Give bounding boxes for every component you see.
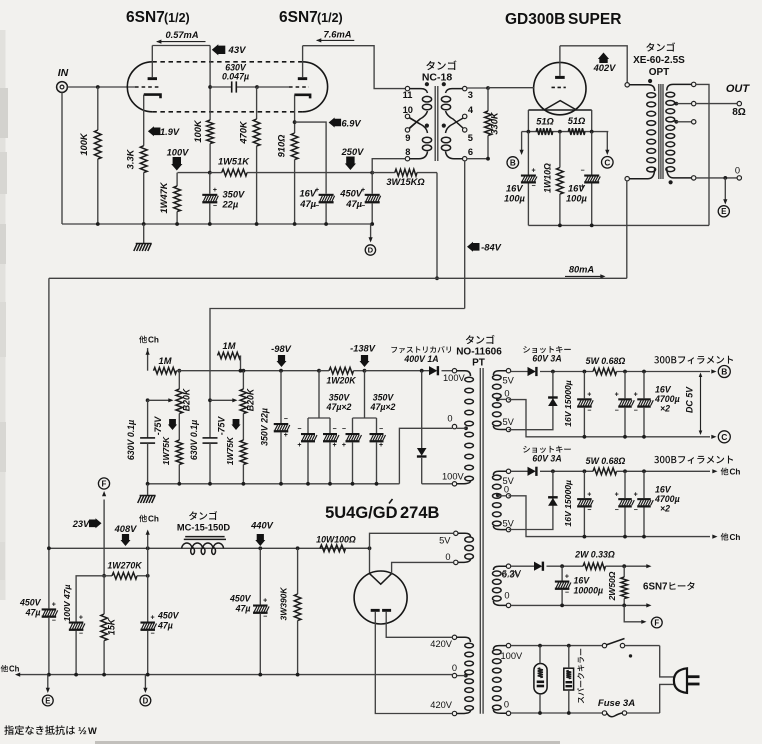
svg-text:450V: 450V: [229, 594, 252, 604]
svg-text:60V 3A: 60V 3A: [532, 453, 561, 463]
svg-text:6SN7: 6SN7: [643, 582, 668, 593]
svg-text:D: D: [143, 696, 149, 705]
svg-text:6.3V: 6.3V: [502, 570, 522, 580]
svg-text:+: +: [615, 491, 619, 498]
switch SW1: [602, 643, 606, 647]
svg-text:450V: 450V: [157, 611, 180, 621]
capacitor C 16V15000u supply 1: [583, 370, 587, 374]
node bias rail ch1 pot top: [177, 369, 181, 373]
diode D Schottky lower supply 1: [509, 372, 553, 430]
svg-text:0: 0: [452, 663, 457, 673]
arrow -75V ch2: [231, 419, 240, 430]
T3 5V rectifier winding: [454, 531, 458, 535]
svg-text:1M: 1M: [159, 356, 172, 366]
wire bias line to voltage divider: [210, 309, 465, 356]
node input junction: [96, 85, 100, 89]
capacitor C 16V4700u a supply 2: [623, 469, 627, 473]
wire bias rail: [177, 370, 282, 372]
arrow heater return: [646, 603, 651, 607]
wire bias ground rail: [148, 483, 400, 485]
svg-text:SUPER: SUPER: [568, 11, 621, 28]
svg-text:B: B: [721, 367, 727, 377]
svg-text:330K: 330K: [490, 111, 500, 135]
phase dot T2 primary: [648, 79, 652, 83]
wire B+ feed down from 80mA line: [48, 278, 50, 608]
svg-text:−: −: [297, 426, 301, 433]
svg-text:−: −: [263, 614, 267, 621]
svg-text:47µ: 47µ: [345, 199, 362, 209]
plug body: [674, 668, 687, 693]
svg-text:+: +: [52, 602, 56, 609]
resistor R19 15K: [103, 576, 105, 614]
wire pin10 crossover: [409, 118, 420, 125]
svg-text:100V: 100V: [167, 147, 190, 157]
svg-text:+: +: [634, 491, 638, 498]
svg-text:15K: 15K: [107, 618, 117, 635]
tube V4 envelope: [354, 571, 407, 624]
svg-text:XE-60-2.5S: XE-60-2.5S: [633, 55, 685, 66]
capacitor C13 100V 47u: [69, 622, 84, 624]
svg-text:Fuse 3A: Fuse 3A: [598, 698, 635, 709]
choke L1 Tango MC-15-150D: [189, 511, 217, 520]
wire pin9 crossover: [409, 119, 420, 129]
node plate/coupling junction: [208, 85, 212, 89]
svg-text:6: 6: [468, 147, 473, 157]
wire main B+ rail 408V: [49, 547, 370, 549]
tube V2 cathode: [294, 95, 310, 99]
wire pin6 bias feed down: [464, 161, 466, 309]
resistor R20 3W390K bleeder: [296, 546, 300, 550]
svg-text:+: +: [587, 392, 591, 399]
svg-text:-84V: -84V: [481, 243, 501, 253]
svg-text:−: −: [634, 407, 638, 414]
arrow ground to other channel: [15, 673, 20, 677]
svg-text:−: −: [581, 168, 585, 175]
svg-text:100V 47µ: 100V 47µ: [62, 584, 72, 621]
wire OPT B+ drop: [626, 181, 628, 278]
resistor R16 1W75K ch2: [242, 414, 244, 441]
svg-text:100K: 100K: [79, 132, 89, 156]
pin 4: [463, 114, 467, 118]
terminal B: [507, 157, 519, 169]
tube V1 grid (dashed): [135, 86, 161, 88]
resistor R10 51ohm: [536, 128, 553, 135]
resistor R21 10W100ohm: [320, 545, 346, 552]
svg-text:NC-18: NC-18: [422, 72, 453, 84]
svg-text:+: +: [284, 432, 288, 439]
phase dot T1 primary top: [425, 82, 429, 86]
label other channel bias: [139, 336, 147, 344]
svg-text:1W75K: 1W75K: [225, 436, 235, 465]
terminal C: [602, 157, 614, 169]
wire pin6 to 330K bottom: [467, 158, 488, 160]
node heater bias divider: [102, 574, 106, 578]
terminal E bottom: [42, 695, 53, 706]
node 250V line to 3W15K: [370, 171, 374, 175]
wire 3W15K down to B+ line: [436, 173, 438, 279]
arrow output to other channel bottom: [712, 535, 717, 539]
svg-text:47µ×2: 47µ×2: [326, 402, 352, 412]
wire AC bottom rail: [511, 712, 603, 714]
transformer T1 primary winding lower: [410, 118, 428, 133]
wire B+ 80mA line: [49, 277, 627, 279]
arrow to C: [606, 132, 608, 153]
svg-text:274B: 274B: [400, 504, 440, 522]
svg-text:-75V: -75V: [153, 416, 163, 436]
wire heater return rail: [511, 604, 648, 606]
wire bias winding center tap: [464, 426, 468, 430]
resistor R3 100K plate load V1: [207, 120, 214, 144]
svg-text:OPT: OPT: [649, 67, 670, 78]
transformer T2 secondary winding: [667, 84, 692, 90]
svg-text:−: −: [52, 617, 56, 624]
arrow -84V: [467, 242, 480, 252]
svg-text:+: +: [151, 615, 155, 622]
svg-text:400V 1A: 400V 1A: [403, 354, 438, 364]
capacitor C 16V4700u a supply 1: [623, 370, 627, 374]
potentiometer B20K ch1: [176, 389, 183, 414]
svg-text:16V: 16V: [299, 189, 316, 199]
node rectifier junction supply 1: [551, 370, 555, 374]
svg-text:−: −: [79, 631, 83, 638]
capacitor C 16V4700u b supply 1: [642, 370, 646, 374]
tube V3 grid dashes: [552, 86, 566, 88]
svg-text:9: 9: [405, 133, 410, 143]
svg-text:16V: 16V: [655, 484, 672, 494]
arrow to E top: [724, 178, 726, 202]
tube V2 grid (dashed): [289, 86, 309, 88]
svg-text:11: 11: [403, 90, 413, 100]
svg-text:−: −: [342, 426, 346, 433]
svg-text:6.9V: 6.9V: [341, 118, 361, 128]
resistor R 5W0.68ohm supply 2: [593, 468, 617, 475]
svg-text:6SN7: 6SN7: [126, 9, 165, 26]
node bias rail 47u bank 1: [317, 369, 321, 373]
node 440V: [258, 546, 262, 550]
tube V1 envelope (shared obround, dashed): [127, 62, 152, 112]
arrow heater output top: [646, 564, 651, 568]
svg-text:100V: 100V: [442, 472, 465, 482]
svg-text:−: −: [333, 426, 337, 433]
svg-text:F: F: [654, 618, 659, 627]
svg-text:8Ω: 8Ω: [732, 107, 746, 118]
svg-text:−: −: [634, 507, 638, 514]
T3 bias winding 100V-0-100V: [452, 369, 456, 373]
pilot lamp PL1: [534, 664, 547, 694]
wire pin3 to 300B grid: [467, 87, 488, 89]
arrow B+ to other channel: [146, 546, 150, 550]
node pot top ch2: [242, 369, 246, 373]
terminal F right: [651, 617, 662, 628]
capacitor C5 16V 100u left: [527, 132, 529, 175]
diode D1 fast recovery 400V1A: [365, 370, 430, 372]
pin 8: [405, 157, 409, 161]
wire HV center tap: [464, 674, 468, 678]
svg-text:350V 22µ: 350V 22µ: [260, 408, 270, 446]
svg-text:-75V: -75V: [217, 416, 227, 436]
wire V1 plate drop to 100K: [209, 46, 211, 121]
annotation 7.6mA: [317, 39, 355, 41]
tube V3 300B envelope: [534, 62, 586, 114]
wire V3 plate to OPT: [560, 46, 627, 83]
svg-text:910Ω: 910Ω: [277, 134, 287, 158]
wire to V2 grid: [257, 86, 289, 88]
svg-text:5V: 5V: [503, 519, 515, 529]
capacitor C16 16V 10000u: [561, 566, 563, 580]
resistor R1 100K input: [97, 87, 99, 130]
svg-text:630V 0.1µ: 630V 0.1µ: [189, 420, 199, 460]
svg-text:250V: 250V: [341, 147, 365, 157]
svg-text:47µ: 47µ: [25, 608, 41, 618]
note: unmarked resistors 1/2W: [4, 725, 75, 735]
svg-text:×2: ×2: [660, 404, 670, 414]
capacitor C 16V4700u b supply 2: [642, 469, 646, 473]
svg-text:MC-15-150D: MC-15-150D: [177, 523, 231, 533]
svg-text:D: D: [368, 246, 374, 255]
svg-text:−: −: [615, 407, 619, 414]
svg-text:−: −: [379, 426, 383, 433]
phase dot T1 primary mid: [425, 124, 429, 128]
svg-text:630V 0.1µ: 630V 0.1µ: [126, 420, 136, 460]
diode D Schottky top supply 2: [511, 470, 528, 472]
svg-text:22µ: 22µ: [222, 200, 239, 210]
svg-text:0.047µ: 0.047µ: [222, 71, 249, 81]
svg-text:6SN7: 6SN7: [279, 9, 318, 26]
capacitor C2 350V 22u: [209, 173, 211, 194]
pin 6: [463, 157, 467, 161]
svg-text:16V: 16V: [506, 184, 523, 194]
annotation 0.57mA: [157, 41, 206, 43]
wire 1M ch2 to rail: [240, 356, 242, 371]
potentiometer B20K ch2: [242, 371, 244, 389]
svg-text:OUT: OUT: [726, 83, 751, 95]
wire to F right: [624, 605, 643, 621]
wire V1 plate top: [152, 45, 210, 47]
svg-text:100V: 100V: [501, 651, 524, 661]
arrow 402V: [598, 53, 609, 64]
wire switch to right rail: [625, 645, 660, 647]
svg-text:402V: 402V: [593, 63, 617, 73]
svg-text:51Ω: 51Ω: [536, 117, 554, 127]
transformer T2 core: [658, 84, 660, 179]
svg-text:420V: 420V: [430, 639, 453, 649]
label Schottky 60V3A supply 1: [523, 346, 571, 353]
transformer T1 Tango NC-18 label: [426, 60, 456, 70]
resistor R6 1W51K decoupling: [210, 172, 222, 174]
svg-text:+: +: [379, 442, 383, 449]
wire hum pot rail: [522, 131, 609, 133]
svg-text:−: −: [213, 203, 217, 210]
diode D Schottky top supply 1: [511, 371, 528, 373]
arrow 43V: [212, 44, 226, 55]
tube V4 filament: [370, 574, 392, 585]
resistor R17 1W20K: [329, 367, 354, 374]
diode D2 bias lower: [420, 369, 424, 373]
tube V3 plate: [555, 76, 565, 79]
wire V4 right plate to 420V top: [386, 612, 452, 638]
label 300B filament supply 2: [654, 456, 733, 464]
resistor R4 470K grid leak V2: [256, 87, 258, 119]
svg-text:420V: 420V: [430, 700, 453, 710]
wire secondary top tap to feedback rail: [692, 82, 696, 86]
svg-text:5V: 5V: [503, 417, 515, 427]
resistor R22 2W0.33ohm: [583, 563, 606, 570]
svg-text:−: −: [587, 407, 591, 414]
svg-text:3W390K: 3W390K: [279, 587, 289, 621]
svg-text:60V 3A: 60V 3A: [532, 354, 561, 364]
node rectifier junction supply 2: [551, 469, 555, 473]
capacitor C 16V15000u supply 2: [583, 469, 587, 473]
svg-text:16V 15000µ: 16V 15000µ: [563, 480, 573, 527]
svg-text:PT: PT: [472, 358, 485, 369]
capacitor C9 350V 22u bias filter: [280, 371, 282, 423]
svg-text:350V: 350V: [223, 189, 246, 199]
resistor R2 3.3K cathode: [143, 95, 145, 146]
arrow output B supply 1: [711, 369, 716, 373]
svg-text:23V: 23V: [72, 519, 90, 529]
node coupling to V2 grid: [255, 85, 259, 89]
transformer T2 primary pins: [625, 83, 629, 87]
transformer T2 primary winding: [629, 85, 654, 91]
wire rectifier filament left leg: [369, 548, 371, 573]
node V2 cathode junction: [293, 120, 297, 124]
svg-text:-98V: -98V: [271, 344, 291, 354]
label 300B filament supply 1: [654, 356, 733, 364]
svg-text:+: +: [342, 442, 346, 449]
tube V1 cathode: [144, 95, 161, 99]
pin 10: [405, 114, 409, 118]
svg-text:47µ: 47µ: [235, 604, 251, 614]
diode D5 heater rectifier: [511, 565, 534, 567]
plug prongs: [688, 675, 700, 678]
svg-text:16V: 16V: [568, 184, 585, 194]
label Schottky 60V3A supply 2: [523, 446, 571, 453]
svg-text:4700µ: 4700µ: [654, 494, 680, 504]
wire V2 plate top to NC-18 pin 11: [303, 46, 406, 89]
svg-text:3W15KΩ: 3W15KΩ: [386, 177, 425, 187]
svg-text:47µ: 47µ: [299, 199, 316, 209]
svg-text:C: C: [604, 158, 610, 167]
svg-text:W: W: [88, 726, 97, 736]
node rectifier output: [368, 546, 372, 550]
svg-text:C: C: [721, 432, 727, 442]
svg-text:5U4G/GD: 5U4G/GD: [325, 504, 398, 522]
dot indicator near switch: [629, 654, 632, 657]
svg-text:Ch: Ch: [730, 533, 741, 542]
svg-text:16V 15000µ: 16V 15000µ: [563, 380, 573, 427]
svg-text:−: −: [587, 507, 591, 514]
svg-text:+: +: [213, 187, 217, 194]
tube V3 filament: [528, 109, 591, 111]
capacitor C8 630V 0.1u ch2: [203, 437, 218, 439]
capacitor C3 16V 47u cathode bypass: [319, 194, 334, 196]
fuse F1 3A: [602, 711, 606, 715]
svg-text:5W 0.68Ω: 5W 0.68Ω: [586, 356, 626, 366]
resistor R14 1W75K ch1: [178, 414, 180, 441]
wire filament right drop: [591, 110, 593, 132]
terminal D top: [365, 245, 375, 255]
terminal F left: [98, 478, 109, 489]
svg-text:−: −: [151, 631, 155, 638]
svg-text:IN: IN: [58, 67, 69, 79]
svg-text:B: B: [510, 158, 516, 167]
phase dot T1 secondary top: [442, 82, 446, 86]
svg-text:+: +: [333, 442, 337, 449]
svg-text:(1/2): (1/2): [317, 11, 343, 25]
svg-text:350V: 350V: [329, 393, 351, 403]
wire filament2 center tap: [496, 493, 500, 497]
capacitor C12 450V 47u far left: [42, 608, 57, 610]
resistor R13 1M ch1: [154, 368, 177, 374]
svg-text:8: 8: [405, 147, 410, 157]
svg-text:−: −: [531, 183, 535, 190]
wire secondary 0 tap: [692, 176, 696, 180]
pin 9: [405, 128, 409, 132]
capacitor bank C10 350V 47ux2: [318, 371, 320, 418]
svg-text:0: 0: [445, 552, 450, 562]
svg-text:5W 0.68Ω: 5W 0.68Ω: [586, 456, 626, 466]
svg-text:×2: ×2: [660, 503, 670, 513]
svg-text:+: +: [615, 392, 619, 399]
wire bottom ground rail / HV center-tap return: [18, 674, 452, 676]
svg-text:Ch: Ch: [148, 515, 159, 524]
node 1W270K right to B+ rail: [146, 574, 150, 578]
svg-text:+: +: [79, 615, 83, 622]
svg-text:B20K: B20K: [182, 388, 192, 411]
wire filament return rail (cathode feedback): [528, 224, 709, 226]
svg-text:B20K: B20K: [246, 388, 256, 411]
terminal E top: [718, 206, 729, 217]
svg-text:7.6mA: 7.6mA: [324, 29, 352, 39]
svg-text:4: 4: [468, 105, 474, 115]
svg-text:350V: 350V: [373, 393, 395, 403]
resistor R23 2W50ohm: [622, 564, 626, 568]
svg-text:440V: 440V: [250, 521, 274, 531]
wire to 5V winding top: [370, 533, 454, 548]
resistor R12 1W10ohm hum balance: [559, 132, 561, 168]
node D drop from ground rail: [370, 222, 374, 226]
arrow 1.9V: [148, 126, 161, 136]
svg-text:0: 0: [504, 389, 509, 399]
svg-text:−: −: [565, 590, 569, 597]
pin 11: [405, 86, 409, 90]
T3 6.3V heater winding: [506, 564, 510, 568]
svg-text:0: 0: [504, 591, 509, 601]
svg-text:+: +: [297, 442, 301, 449]
svg-text:+: +: [587, 491, 591, 498]
svg-text:+: +: [565, 574, 569, 581]
arrow to B: [521, 132, 523, 153]
svg-text:10000µ: 10000µ: [574, 586, 604, 596]
svg-text:+: +: [634, 392, 638, 399]
svg-text:100V: 100V: [443, 373, 466, 383]
wire filament1 center tap: [496, 398, 500, 402]
svg-text:Ch: Ch: [730, 468, 741, 477]
transformer T2 Tango XE-60-2.5S OPT label: [646, 42, 675, 51]
svg-text:DC 5V: DC 5V: [685, 386, 695, 413]
ground symbol bias network: [147, 484, 149, 496]
terminal C right: [718, 431, 730, 443]
svg-text:+: +: [263, 598, 267, 605]
svg-text:(1/2): (1/2): [164, 11, 190, 25]
resistor R 5W0.68ohm supply 1: [593, 368, 617, 375]
svg-text:1W51K: 1W51K: [218, 156, 250, 166]
transformer T1 secondary winding upper: [446, 89, 465, 93]
svg-text:0: 0: [447, 414, 452, 424]
tube V1 plate: [148, 77, 157, 80]
node heater cap junction: [560, 564, 564, 568]
arrow to E bottom: [47, 675, 49, 691]
